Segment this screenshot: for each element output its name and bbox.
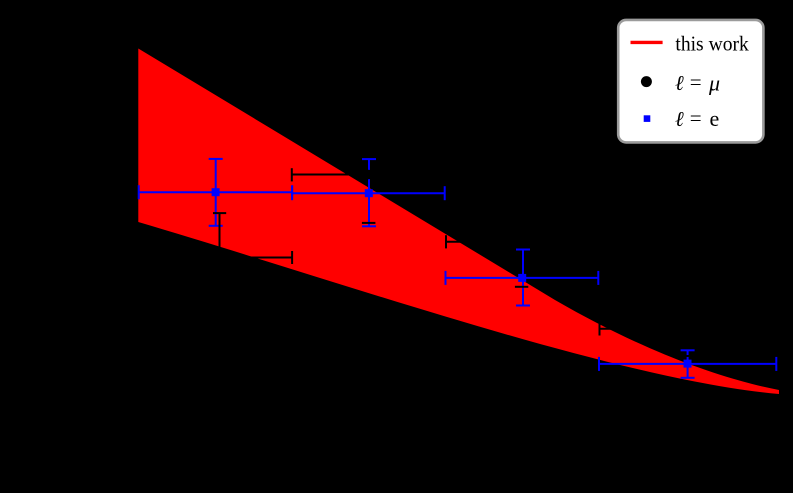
point mu2 x-error bar [292,174,445,176]
point mu3 y-error bottom cap [515,286,528,288]
svg-text:ℓ=e: ℓ=e [675,106,719,131]
marker e4 [684,360,692,368]
marker mu2 (covers blue line) [364,170,374,180]
legend: mu marker dot [641,76,652,87]
legend: this work red line [631,41,663,44]
point mu3 x-error bar [446,241,598,243]
marker e2 [365,189,373,197]
point mu4 y-error top cap over blue line [681,355,695,357]
legend: e marker square [644,115,651,122]
blue dataset l=e [139,159,777,378]
point e2 y-error bar [368,159,370,226]
point e4 x-error bar [599,363,776,365]
point mu1 x-error bar [139,257,292,259]
point mu4 x-error bar [600,328,777,330]
point mu1 y-error bar upper part [219,213,221,257]
point e2 x-error bar [292,192,445,194]
marker e1 [212,188,220,196]
point e1 x-error bar [139,191,292,193]
marker e3 [518,274,526,282]
point e1 y-error bar [215,159,217,226]
black dataset l=mu (visible only over red/blue) [139,168,776,356]
svg-text:ℓ=μ: ℓ=μ [675,70,720,96]
point mu2 y-error bottom cap [362,222,376,224]
point e4 y-error bar [687,350,689,378]
legend box [618,20,763,142]
red theory band (this work) [138,49,779,395]
svg-text:this work: this work [675,32,749,56]
point e3 x-error bar [446,277,599,279]
point e3 y-error bar [522,250,524,306]
